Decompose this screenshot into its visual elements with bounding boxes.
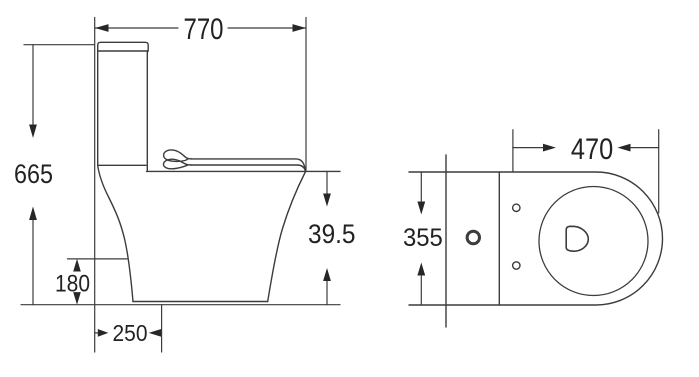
180 arrow up bbox=[73, 259, 81, 272]
665 arrow up bbox=[29, 207, 37, 221]
39.5 upper dim shaft bbox=[326, 171, 328, 194]
top view outer shape bbox=[409, 172, 663, 305]
tank left edge bbox=[97, 51, 99, 165]
drain hole bbox=[566, 226, 588, 251]
665 top extension line bbox=[24, 44, 94, 46]
355 arrow down bbox=[417, 202, 425, 215]
770 right extension line bbox=[305, 18, 307, 172]
svg-text:250: 250 bbox=[113, 320, 148, 346]
svg-text:665: 665 bbox=[14, 159, 53, 189]
tank lid (side view) bbox=[98, 42, 149, 51]
770 dimension line right part bbox=[228, 27, 306, 29]
39.5 arrow up bbox=[323, 268, 331, 281]
tank bottom line bbox=[98, 164, 146, 166]
250 right extension line bbox=[161, 305, 163, 352]
foot bottom line bbox=[133, 301, 268, 303]
470 dim shaft right bbox=[627, 147, 659, 149]
770 arrow right bbox=[293, 24, 307, 32]
250 arrow right bbox=[98, 329, 109, 337]
button ring bbox=[467, 231, 479, 243]
665 lower dim shaft bbox=[32, 219, 34, 305]
svg-text:180: 180 bbox=[55, 271, 90, 298]
top view left edge line bbox=[445, 155, 447, 327]
250 arrow left bbox=[149, 329, 162, 337]
svg-text:355: 355 bbox=[403, 224, 443, 252]
svg-text:470: 470 bbox=[571, 133, 613, 166]
39.5 lower dim shaft bbox=[326, 281, 328, 305]
rim line (seat underside, extends as 39.5 extension) bbox=[147, 170, 341, 172]
svg-text:39.5: 39.5 bbox=[308, 219, 356, 249]
470 right extension line bbox=[658, 130, 660, 213]
665 upper dim shaft bbox=[32, 45, 34, 125]
39.5 arrow down bbox=[323, 194, 331, 207]
svg-text:770: 770 bbox=[184, 13, 224, 46]
seat top line to front tip bbox=[191, 165, 306, 171]
tank divider line bbox=[498, 172, 500, 305]
180 arrow down bbox=[73, 292, 81, 305]
seat hole lower bbox=[513, 262, 520, 269]
770 arrow left bbox=[95, 24, 109, 32]
665 arrow down bbox=[29, 125, 37, 139]
470 dim shaft left bbox=[513, 147, 546, 149]
180 extension line bbox=[68, 258, 128, 260]
bowl back outline bbox=[98, 165, 133, 301]
lid top line with right corner bbox=[191, 159, 305, 171]
tank right edge bbox=[146, 51, 148, 171]
seat hole upper bbox=[513, 204, 520, 211]
bowl circle bbox=[539, 187, 648, 296]
floor line bbox=[21, 304, 340, 306]
left extension line (770 left / 250 left) bbox=[94, 18, 96, 353]
470 arrow right bbox=[543, 144, 556, 152]
seat curl (hinge lower) bbox=[163, 159, 191, 169]
355 upper dim shaft bbox=[420, 172, 422, 201]
355 arrow up bbox=[417, 263, 425, 276]
355 lower dim shaft bbox=[420, 276, 422, 305]
470 left extension line bbox=[512, 130, 514, 172]
lid curl (hinge) bbox=[164, 150, 192, 161]
470 arrow left bbox=[618, 144, 631, 152]
250 dim stub right bbox=[158, 332, 162, 334]
bowl front outline bbox=[268, 172, 306, 302]
770 dimension line left part bbox=[95, 27, 178, 29]
250 dim stub left bbox=[95, 332, 99, 334]
